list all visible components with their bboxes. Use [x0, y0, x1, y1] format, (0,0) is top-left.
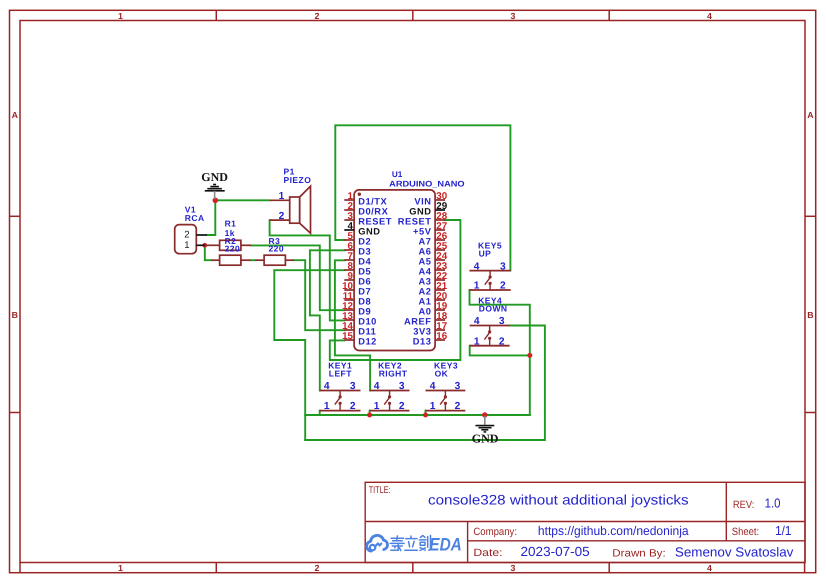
pin 9 D6: [344, 279, 354, 281]
svg-text:D12: D12: [358, 336, 377, 346]
svg-text:RESET: RESET: [358, 216, 392, 226]
pin 29 GND: [435, 209, 445, 211]
node KEY3 rail junction: [423, 413, 428, 418]
svg-text:U1: U1: [392, 170, 403, 179]
svg-text:A1: A1: [419, 296, 432, 306]
svg-text:GND: GND: [358, 226, 380, 236]
pin 4 GND: [344, 229, 354, 231]
svg-text:console328 without additional: console328 without additional joysticks: [428, 493, 689, 508]
wire GND1 to piezo pin1: [215, 199, 269, 201]
svg-text:D1/TX: D1/TX: [358, 196, 387, 206]
svg-text:1: 1: [184, 240, 189, 251]
pin 19 A0: [435, 309, 445, 311]
svg-text:+5V: +5V: [413, 226, 432, 236]
wire KEY5 pin1 loop: [470, 290, 530, 415]
wire D5 to ground rail: [274, 270, 344, 440]
wire V1 pin1 junction down to R2: [205, 245, 212, 260]
wire KEY4 pin1 loop: [470, 346, 530, 356]
svg-text:GND: GND: [201, 170, 228, 184]
svg-text:1: 1: [118, 11, 123, 21]
svg-text:D2: D2: [358, 236, 371, 246]
pin 26 A7: [435, 239, 445, 241]
svg-text:220: 220: [269, 244, 285, 254]
svg-text:A2: A2: [419, 286, 432, 296]
U1 pins right: [398, 191, 448, 346]
pin 14 D11: [344, 329, 354, 331]
svg-text:Date:: Date:: [473, 547, 502, 559]
wire R1 right to D9: [251, 245, 344, 310]
switch KEY3 OK: [426, 360, 466, 412]
svg-text:PIEZO: PIEZO: [284, 175, 312, 185]
svg-text:D8: D8: [358, 296, 371, 306]
svg-text:2023-07-05: 2023-07-05: [521, 544, 590, 559]
svg-text:GND: GND: [409, 206, 431, 216]
svg-text:2: 2: [315, 563, 320, 573]
svg-text:A7: A7: [419, 236, 432, 246]
svg-text:16: 16: [436, 331, 447, 342]
svg-text:LEFT: LEFT: [329, 368, 352, 378]
svg-text:D4: D4: [358, 256, 371, 266]
ic U1 ARDUINO_NANO: [354, 170, 465, 351]
svg-text:D3: D3: [358, 246, 371, 256]
svg-text:D13: D13: [413, 336, 432, 346]
pin 13 D10: [344, 319, 354, 321]
resistor R3: [256, 236, 294, 265]
svg-text:RESET: RESET: [398, 216, 432, 226]
svg-text:EDA: EDA: [429, 534, 462, 554]
svg-text:A0: A0: [419, 306, 432, 316]
svg-text:15: 15: [342, 331, 353, 342]
node GND2 rail junction: [482, 412, 487, 417]
svg-text:D11: D11: [358, 326, 376, 336]
svg-text:3: 3: [511, 11, 516, 21]
JLC EDA logo: [367, 534, 462, 554]
svg-text:D10: D10: [358, 316, 377, 326]
pin 25 A6: [435, 249, 445, 251]
svg-text:GND: GND: [472, 431, 499, 445]
svg-text:1: 1: [118, 563, 123, 573]
pin 1 D1/TX: [344, 199, 354, 201]
pin 21 A2: [435, 289, 445, 291]
pin 10 D7: [344, 289, 354, 291]
ground GND bottom: [472, 416, 499, 446]
wire KEY1 pin1 stub: [319, 411, 321, 415]
pin 20 A1: [435, 299, 445, 301]
svg-text:RCA: RCA: [185, 213, 205, 223]
svg-text:D5: D5: [358, 266, 371, 276]
pin 16 D13: [435, 339, 445, 341]
pin 30 VIN: [435, 199, 445, 201]
svg-text:B: B: [807, 310, 813, 320]
pin 1: [270, 199, 290, 201]
glyph jia: [390, 536, 404, 551]
pin 2: [270, 219, 290, 221]
svg-text:Company:: Company:: [473, 526, 517, 538]
pin 2 D0/RX: [344, 209, 354, 211]
svg-text:A: A: [12, 110, 19, 120]
svg-text:DOWN: DOWN: [479, 303, 508, 313]
svg-text:A: A: [807, 110, 814, 120]
svg-text:3: 3: [511, 563, 516, 573]
svg-text:D9: D9: [358, 306, 371, 316]
svg-text:TITLE:: TITLE:: [369, 485, 391, 496]
cloud icon: [367, 535, 388, 551]
pin 1 stub: [196, 244, 205, 246]
ground GND top: [201, 170, 228, 199]
wire top loop D2 to KEY5 pin3: [335, 125, 510, 270]
wire D3 to KEY1 pin4: [310, 250, 344, 390]
svg-text:REV:: REV:: [733, 499, 754, 511]
wire D12 to RESET pin28: [330, 220, 461, 360]
svg-text:VIN: VIN: [414, 196, 431, 206]
wire lower ground rail to KEY4 pin3: [305, 326, 545, 441]
pin 6 D3: [344, 249, 354, 251]
wire segments: [205, 125, 545, 440]
svg-text:AREF: AREF: [404, 316, 432, 326]
pin 7 D4: [344, 259, 354, 261]
pin 12 D9: [344, 309, 354, 311]
node KEY4/KEY5 junction: [527, 353, 532, 358]
pin 15 D12: [344, 339, 354, 341]
pin 28 RESET: [435, 219, 445, 221]
svg-text:D6: D6: [358, 276, 371, 286]
pin 2 stub: [196, 234, 207, 236]
U1 pins left: [342, 191, 392, 346]
pin 5 D2: [344, 239, 354, 241]
svg-text:A5: A5: [419, 256, 432, 266]
wire R3 right to D11: [294, 260, 345, 330]
pin 18 AREF: [435, 319, 445, 321]
svg-text:4: 4: [707, 563, 712, 573]
svg-text:D7: D7: [358, 286, 371, 296]
svg-text:ARDUINO_NANO: ARDUINO_NANO: [389, 180, 465, 189]
pin 22 A3: [435, 279, 445, 281]
svg-text:2: 2: [315, 11, 320, 21]
switch KEY2 RIGHT: [370, 360, 410, 412]
svg-text:4: 4: [707, 11, 712, 21]
wire GND1 down to V1 pin2: [207, 200, 216, 235]
wire R2 to R3: [250, 259, 255, 261]
svg-text:R1: R1: [225, 219, 237, 229]
svg-text:A6: A6: [419, 246, 432, 256]
svg-text:1/1: 1/1: [775, 523, 791, 538]
pin 3 RESET: [344, 219, 354, 221]
glyph chuang: [419, 535, 430, 550]
svg-text:3V3: 3V3: [413, 326, 431, 336]
connector V1 RCA: [175, 205, 207, 254]
svg-text:1.0: 1.0: [765, 496, 781, 511]
junction dots: [202, 198, 532, 418]
svg-text:Semenov Svatoslav: Semenov Svatoslav: [675, 545, 794, 560]
svg-text:A3: A3: [419, 276, 432, 286]
svg-text:RIGHT: RIGHT: [379, 368, 408, 378]
svg-text:D0/RX: D0/RX: [358, 206, 388, 216]
resistor R2: [211, 236, 250, 265]
speaker P1 PIEZO: [270, 166, 312, 233]
pin 24 A5: [435, 259, 445, 261]
svg-text:220: 220: [225, 244, 241, 254]
wire KEY2 pin1 stub: [369, 411, 371, 415]
node KEY2 rail junction: [367, 413, 372, 418]
switch KEY5 UP: [470, 241, 511, 292]
pin 8 D5: [344, 269, 354, 271]
svg-text:Drawn By:: Drawn By:: [612, 548, 665, 560]
node V1 pin1 junction: [202, 243, 207, 248]
wire piezo pin2 to D10: [270, 220, 345, 320]
pin 23 A4: [435, 269, 445, 271]
svg-text:UP: UP: [479, 249, 492, 259]
wire D4 to KEY2 pin4: [335, 260, 370, 390]
title block: [365, 482, 805, 562]
wire KEY3 pin1 stub: [425, 411, 427, 415]
node GND1 junction: [213, 198, 219, 204]
wire upper ground rail: [305, 414, 530, 416]
svg-text:B: B: [12, 310, 18, 320]
glyph li: [405, 536, 417, 550]
switch KEY4 DOWN: [470, 295, 510, 347]
svg-text:Sheet:: Sheet:: [732, 526, 759, 538]
switch KEY1 LEFT: [320, 360, 361, 412]
svg-text:https://github.com/nedoninja: https://github.com/nedoninja: [538, 524, 689, 538]
pin 17 3V3: [435, 329, 445, 331]
pin 11 D8: [344, 299, 354, 301]
pin 27 +5V: [435, 229, 445, 231]
svg-text:OK: OK: [435, 368, 449, 378]
resistor R1: [205, 219, 251, 251]
svg-text:A4: A4: [419, 266, 432, 276]
